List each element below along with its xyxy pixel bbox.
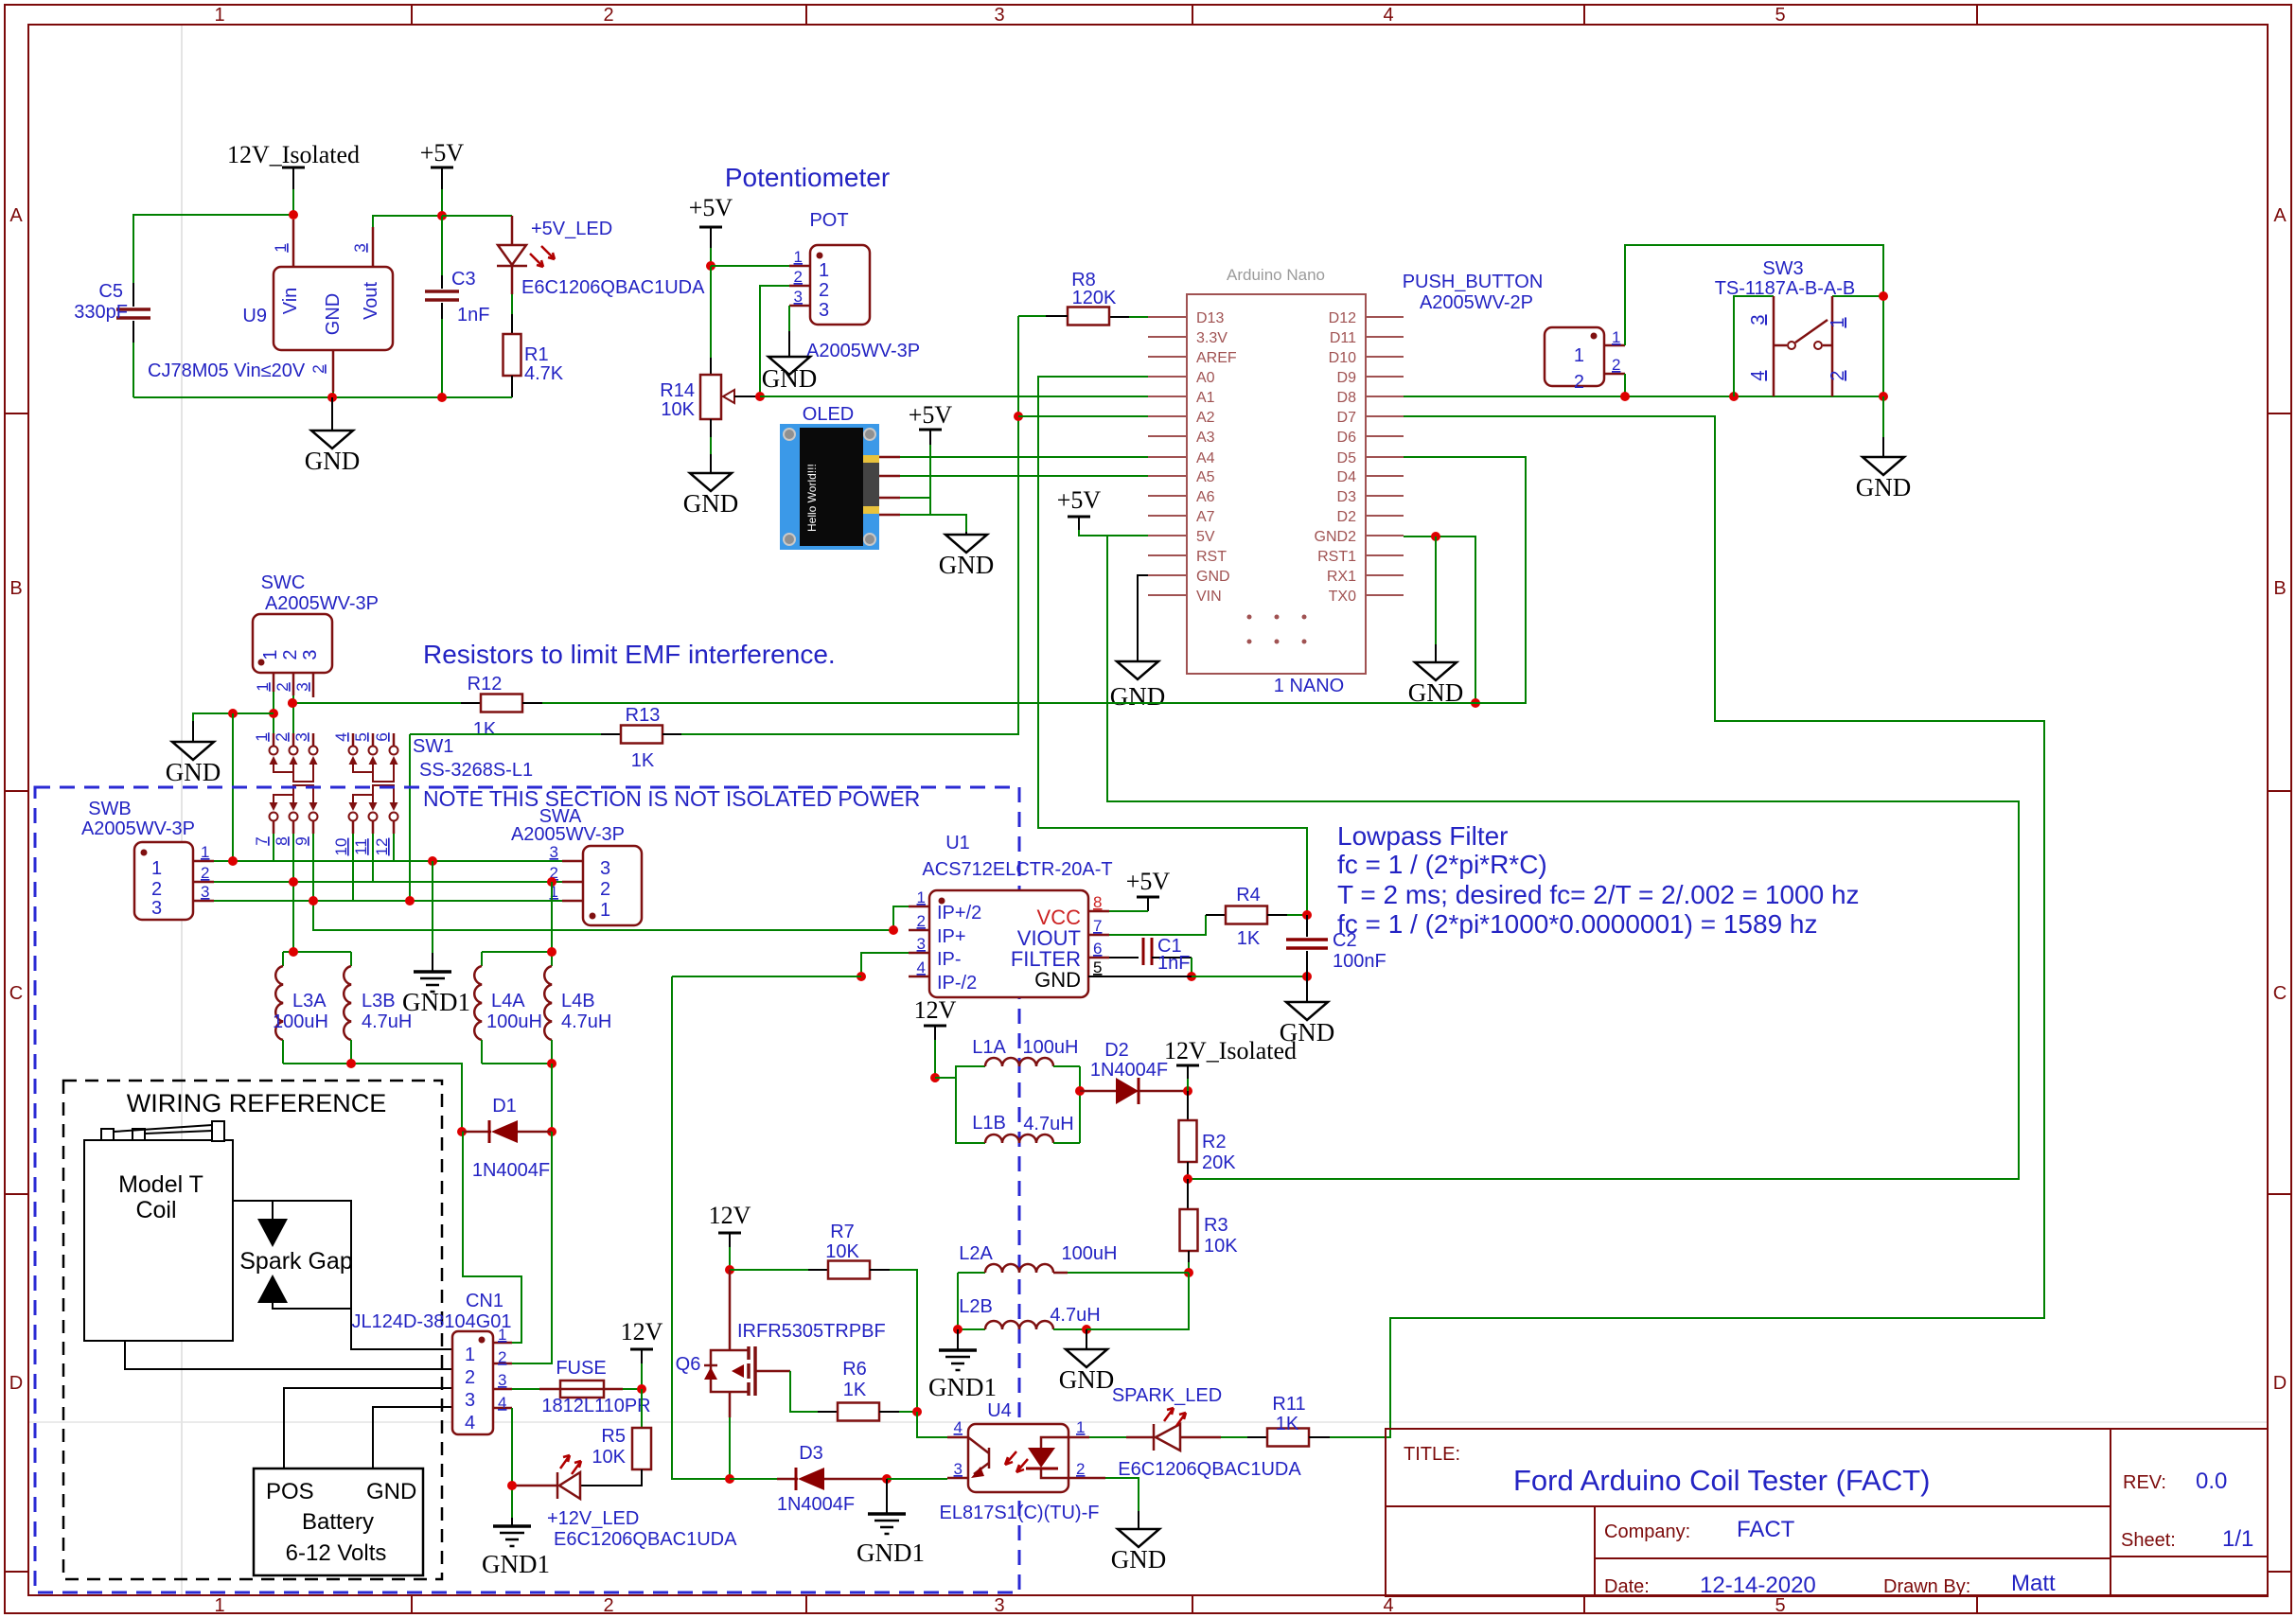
svg-text:E6C1206QBAC1UDA: E6C1206QBAC1UDA xyxy=(554,1529,737,1550)
svg-text:3: 3 xyxy=(300,649,321,660)
svg-text:3: 3 xyxy=(954,1460,963,1478)
svg-text:11: 11 xyxy=(352,838,370,855)
wire Nano GND pin to ground xyxy=(1138,575,1148,661)
svg-text:B: B xyxy=(2273,578,2286,599)
dashed note box xyxy=(35,787,1019,1592)
svg-text:TITLE:: TITLE: xyxy=(1404,1444,1460,1465)
svg-text:D2: D2 xyxy=(1337,509,1357,525)
svg-text:D8: D8 xyxy=(1337,390,1357,406)
svg-text:2: 2 xyxy=(151,879,162,900)
diode D3 1N4004F xyxy=(777,1443,892,1515)
svg-text:L1B: L1B xyxy=(972,1113,1006,1134)
svg-text:Drawn By:: Drawn By: xyxy=(1883,1576,1970,1597)
Nano pin names xyxy=(1196,310,1237,605)
svg-text:D7: D7 xyxy=(1337,410,1357,426)
svg-text:2: 2 xyxy=(1828,370,1848,380)
svg-text:3: 3 xyxy=(917,935,926,953)
svg-text:4: 4 xyxy=(1383,1595,1393,1616)
svg-text:12: 12 xyxy=(373,838,391,856)
lowpass filter notes xyxy=(1337,821,1860,939)
connector PUSH_BUTTON A2005WV-2P xyxy=(1403,272,1625,393)
svg-text:Matt: Matt xyxy=(2011,1571,2056,1596)
svg-text:TX0: TX0 xyxy=(1329,589,1356,605)
svg-text:fc = 1 / (2*pi*1000*0.0000001): fc = 1 / (2*pi*1000*0.0000001) = 1589 hz xyxy=(1337,909,1818,939)
svg-text:2: 2 xyxy=(273,732,291,741)
svg-text:A0: A0 xyxy=(1196,370,1215,386)
svg-text:2: 2 xyxy=(1612,356,1620,374)
diode D2 1N4004F xyxy=(1080,1040,1192,1104)
diode D1 1N4004F xyxy=(457,1096,556,1181)
resistor R8 120K xyxy=(1018,270,1148,325)
svg-text:GND: GND xyxy=(366,1479,416,1504)
transistor Q6 IRFR5305TRPBF xyxy=(676,1270,886,1417)
svg-text:1/1: 1/1 xyxy=(2222,1526,2253,1552)
svg-text:A1: A1 xyxy=(1196,390,1215,406)
svg-text:R6: R6 xyxy=(842,1359,867,1380)
svg-text:Arduino Nano: Arduino Nano xyxy=(1227,266,1325,284)
voltage regulator U9 CJ78M05 xyxy=(148,216,442,397)
title block texts xyxy=(1404,1444,2253,1598)
net 12V flag (fuse) xyxy=(621,1318,663,1394)
svg-text:1K: 1K xyxy=(1276,1414,1299,1434)
ground rail wire xyxy=(133,393,512,402)
svg-text:1K: 1K xyxy=(1237,928,1261,949)
svg-text:1: 1 xyxy=(1612,328,1620,346)
svg-text:CN1: CN1 xyxy=(466,1291,503,1311)
spark gap xyxy=(239,1201,353,1309)
svg-text:2: 2 xyxy=(917,912,926,930)
wire R8/A2/R13 vertical xyxy=(681,316,1148,734)
svg-text:R14: R14 xyxy=(660,380,695,401)
svg-text:Date:: Date: xyxy=(1604,1576,1650,1597)
Model T Coil box xyxy=(84,1121,233,1341)
wire POT pin3 to ground xyxy=(788,306,790,331)
wire SW1 pin7 column xyxy=(273,834,274,861)
module U? Arduino Nano xyxy=(1187,266,1366,674)
svg-text:3: 3 xyxy=(994,1595,1004,1616)
svg-text:SPARK_LED: SPARK_LED xyxy=(1112,1385,1222,1406)
battery labels xyxy=(266,1479,416,1566)
sensor U1 ACS712ELCTR-20A-T xyxy=(909,833,1113,997)
svg-text:GND: GND xyxy=(1856,473,1912,501)
svg-text:3: 3 xyxy=(550,843,558,861)
svg-text:A4: A4 xyxy=(1196,450,1215,466)
svg-text:IRFR5305TRPBF: IRFR5305TRPBF xyxy=(737,1321,886,1342)
wire coil base to CN1 pin2 xyxy=(125,1341,452,1369)
svg-text:2: 2 xyxy=(498,1348,506,1366)
svg-text:2: 2 xyxy=(603,1595,613,1616)
svg-text:A3: A3 xyxy=(1196,430,1215,446)
svg-text:IP-/2: IP-/2 xyxy=(937,973,977,994)
svg-text:RX1: RX1 xyxy=(1327,569,1356,585)
svg-text:3: 3 xyxy=(819,300,829,321)
svg-text:1: 1 xyxy=(600,900,610,921)
net 12V flag (L1) xyxy=(914,996,957,1082)
svg-text:C: C xyxy=(9,983,23,1004)
wire GND branch (SWC) xyxy=(193,709,274,742)
svg-text:20K: 20K xyxy=(1202,1152,1236,1173)
svg-text:7: 7 xyxy=(1093,917,1102,935)
svg-text:Company:: Company: xyxy=(1604,1521,1690,1542)
resistor R5 10K xyxy=(580,1389,651,1486)
svg-text:NOTE THIS SECTION IS NOT ISOLA: NOTE THIS SECTION IS NOT ISOLATED POWER xyxy=(423,786,920,811)
svg-text:R5: R5 xyxy=(601,1426,626,1447)
OLED display module xyxy=(780,404,900,550)
svg-text:5V: 5V xyxy=(1196,529,1215,545)
svg-text:Ford Arduino Coil Tester (FACT: Ford Arduino Coil Tester (FACT) xyxy=(1513,1464,1930,1497)
svg-text:1: 1 xyxy=(465,1345,475,1365)
net +5V flag (regulator output) xyxy=(420,139,465,220)
svg-text:EL817S1(C)(TU)-F: EL817S1(C)(TU)-F xyxy=(940,1503,1100,1523)
svg-text:1: 1 xyxy=(254,682,272,691)
svg-text:12V: 12V xyxy=(621,1318,663,1345)
svg-text:GND1: GND1 xyxy=(482,1550,550,1578)
svg-text:R7: R7 xyxy=(830,1222,855,1242)
svg-text:2: 2 xyxy=(309,364,327,373)
svg-text:1: 1 xyxy=(260,649,281,660)
svg-text:SWC: SWC xyxy=(261,572,306,593)
svg-text:R1: R1 xyxy=(524,344,549,365)
resistor R7 10K xyxy=(730,1222,917,1412)
svg-text:IP+/2: IP+/2 xyxy=(937,903,981,923)
svg-text:REV:: REV: xyxy=(2123,1472,2166,1493)
svg-text:Potentiometer: Potentiometer xyxy=(725,163,890,192)
svg-text:2: 2 xyxy=(201,864,209,882)
wire row SWB3-SWA1 xyxy=(214,896,562,906)
svg-text:GND2: GND2 xyxy=(1315,529,1357,545)
svg-text:3: 3 xyxy=(1748,314,1769,325)
svg-text:3: 3 xyxy=(292,732,310,741)
ground GND (OLED) xyxy=(939,532,995,579)
svg-text:PUSH_BUTTON: PUSH_BUTTON xyxy=(1403,272,1544,292)
svg-text:A2: A2 xyxy=(1196,410,1215,426)
connector SWB A2005WV-3P xyxy=(81,799,214,920)
battery box xyxy=(254,1469,423,1575)
svg-text:U4: U4 xyxy=(987,1400,1012,1421)
wire SW1 pin9 column (to U1 IP+) xyxy=(313,834,893,930)
ground GND1 (D3) xyxy=(857,1514,925,1567)
svg-text:A2005WV-3P: A2005WV-3P xyxy=(81,818,195,839)
svg-text:5: 5 xyxy=(352,732,370,741)
svg-text:A2005WV-3P: A2005WV-3P xyxy=(511,824,625,845)
svg-text:1N4004F: 1N4004F xyxy=(472,1160,550,1181)
svg-text:FACT: FACT xyxy=(1737,1517,1795,1542)
Nano right pin stubs xyxy=(1366,317,1404,595)
svg-text:C: C xyxy=(2273,983,2287,1004)
svg-text:D: D xyxy=(9,1373,23,1394)
svg-text:GND: GND xyxy=(1110,682,1166,711)
svg-text:D: D xyxy=(2273,1373,2287,1394)
svg-text:D11: D11 xyxy=(1330,330,1356,346)
svg-text:D3: D3 xyxy=(799,1443,823,1464)
svg-text:D13: D13 xyxy=(1196,310,1224,326)
svg-text:R2: R2 xyxy=(1202,1132,1227,1152)
svg-text:GND: GND xyxy=(1196,569,1230,585)
svg-text:fc = 1 / (2*pi*R*C): fc = 1 / (2*pi*R*C) xyxy=(1337,850,1547,879)
svg-text:D3: D3 xyxy=(1337,489,1357,505)
svg-text:IP+: IP+ xyxy=(937,926,966,947)
wire row SWB2-SWA2 xyxy=(214,877,562,887)
wire A1 row (wiper to Nano A1) xyxy=(760,396,1148,397)
svg-text:WIRING REFERENCE: WIRING REFERENCE xyxy=(127,1089,387,1117)
svg-text:T = 2 ms; desired fc= 2/T = 2/: T = 2 ms; desired fc= 2/T = 2/.002 = 100… xyxy=(1337,880,1860,909)
svg-text:1N4004F: 1N4004F xyxy=(777,1494,855,1515)
svg-text:+12V_LED: +12V_LED xyxy=(547,1508,639,1529)
svg-text:L4A: L4A xyxy=(491,991,525,1011)
svg-text:JL124D-38104G01: JL124D-38104G01 xyxy=(351,1311,511,1332)
canvas guide lines xyxy=(181,25,183,1595)
svg-text:12-14-2020: 12-14-2020 xyxy=(1700,1573,1816,1598)
svg-text:+5V: +5V xyxy=(689,194,733,221)
svg-text:SW3: SW3 xyxy=(1762,258,1803,279)
wire OLED GND pin xyxy=(900,515,966,532)
svg-text:4: 4 xyxy=(465,1413,475,1433)
svg-text:AREF: AREF xyxy=(1196,350,1237,366)
wire L4 rails xyxy=(482,947,556,1132)
svg-text:SW1: SW1 xyxy=(413,736,453,757)
wire D3 node to ground xyxy=(886,1479,888,1514)
LED SPARK_LED E6C1206QBAC1UDA xyxy=(1089,1385,1301,1480)
svg-text:GND: GND xyxy=(1111,1545,1167,1574)
fuse FUSE 1812L110PR xyxy=(539,1358,651,1416)
svg-text:A7: A7 xyxy=(1196,509,1215,525)
svg-text:Resistors to limit EMF interfe: Resistors to limit EMF interference. xyxy=(423,640,836,669)
wire A0 net (to lowpass output) xyxy=(1038,377,1307,915)
Nano left pin stubs xyxy=(1148,317,1187,595)
inductor L2B 4.7uH xyxy=(953,1273,1189,1334)
svg-text:6-12 Volts: 6-12 Volts xyxy=(286,1540,387,1566)
svg-text:1: 1 xyxy=(214,1595,224,1616)
svg-text:POS: POS xyxy=(266,1479,314,1504)
capacitor C1 1nF xyxy=(1109,936,1196,981)
svg-text:1: 1 xyxy=(917,888,926,906)
svg-text:SS-3268S-L1: SS-3268S-L1 xyxy=(419,760,533,781)
wire U1 IP- pins tie xyxy=(672,953,909,981)
ground GND (SW3) xyxy=(1856,457,1912,501)
svg-text:GND: GND xyxy=(323,293,344,335)
svg-text:Vin: Vin xyxy=(280,288,301,315)
inductor L2A 100uH xyxy=(958,1243,1189,1273)
svg-text:GND: GND xyxy=(305,447,361,475)
wire SW1 pin12 column xyxy=(393,834,395,861)
svg-text:+5V_LED: +5V_LED xyxy=(531,219,612,239)
svg-text:100uH: 100uH xyxy=(486,1011,542,1032)
svg-text:4.7uH: 4.7uH xyxy=(362,1011,412,1032)
wire SW1 pin11 column xyxy=(372,834,374,882)
svg-text:D1: D1 xyxy=(492,1096,517,1117)
svg-text:A2005WV-3P: A2005WV-3P xyxy=(265,593,379,614)
svg-text:A: A xyxy=(9,205,23,226)
svg-text:4.7uH: 4.7uH xyxy=(1023,1114,1073,1134)
resistor R2 20K xyxy=(1179,1091,1237,1184)
wire SW1 pin8 column xyxy=(292,834,294,952)
wire SW3 to ground xyxy=(1882,396,1884,457)
svg-text:GND1: GND1 xyxy=(402,988,470,1016)
wire D3 to U4 pin3 xyxy=(887,1478,947,1480)
wire CN1 pin1 up to D1 junction xyxy=(463,1132,521,1343)
svg-text:GND1: GND1 xyxy=(928,1373,997,1401)
capacitor C2 100nF xyxy=(1286,915,1386,976)
wire L1 right tie xyxy=(1075,1066,1085,1143)
svg-text:4: 4 xyxy=(498,1394,506,1412)
ground GND (U4) xyxy=(1111,1529,1167,1574)
svg-text:2: 2 xyxy=(603,5,613,26)
ground GND (L2B right) xyxy=(1059,1329,1115,1394)
svg-text:12V_Isolated: 12V_Isolated xyxy=(1164,1037,1297,1064)
net +5V flag (U1 VCC) xyxy=(1109,868,1170,911)
svg-text:3: 3 xyxy=(994,5,1004,26)
net 12V_Isolated (U9 input) xyxy=(133,141,360,283)
svg-text:Q6: Q6 xyxy=(676,1354,701,1375)
svg-text:3: 3 xyxy=(794,288,803,306)
svg-text:+5V: +5V xyxy=(909,401,953,429)
ground GND (Nano right GND2) xyxy=(1408,662,1464,707)
svg-text:2: 2 xyxy=(794,268,803,286)
svg-text:2: 2 xyxy=(819,280,829,301)
ground GND (R14 bottom) xyxy=(683,473,739,518)
svg-text:R3: R3 xyxy=(1204,1215,1228,1236)
svg-text:GND: GND xyxy=(166,758,221,786)
svg-text:1: 1 xyxy=(151,858,162,879)
svg-text:+5V: +5V xyxy=(420,139,465,167)
svg-text:B: B xyxy=(9,578,22,599)
svg-text:Model T: Model T xyxy=(118,1171,203,1198)
wire battery POS to CN1 pin3 xyxy=(284,1388,452,1469)
svg-text:0.0: 0.0 xyxy=(2196,1469,2227,1494)
title block frame xyxy=(1386,1429,2268,1596)
svg-text:GND1: GND1 xyxy=(857,1539,925,1567)
svg-text:Lowpass Filter: Lowpass Filter xyxy=(1337,821,1509,851)
svg-text:E6C1206QBAC1UDA: E6C1206QBAC1UDA xyxy=(1118,1459,1301,1480)
ground GND (C2) xyxy=(1280,1002,1335,1046)
LED +5V_LED E6C1206QBAC1UDA xyxy=(442,216,705,298)
wire 5V net down the right (to divider node) xyxy=(1107,536,2019,1179)
svg-text:100uH: 100uH xyxy=(1023,1037,1079,1058)
wire U1 IP+ pins tie xyxy=(889,906,909,935)
wire SWC pin2 column xyxy=(288,695,297,733)
svg-text:FUSE: FUSE xyxy=(556,1358,606,1379)
wire CN1 pin3 to fuse xyxy=(512,1388,539,1390)
svg-text:2: 2 xyxy=(280,649,301,660)
svg-text:3: 3 xyxy=(201,883,209,901)
ground GND1 (L2B left) xyxy=(928,1329,997,1401)
wire row SWB1-SWA3 xyxy=(214,856,562,866)
svg-text:C3: C3 xyxy=(451,269,476,290)
ground GND1 (switch mid) xyxy=(402,972,470,1016)
resistor R3 10K xyxy=(1180,1179,1239,1277)
svg-text:4: 4 xyxy=(332,732,350,741)
svg-text:GND: GND xyxy=(762,364,818,393)
svg-text:D5: D5 xyxy=(1337,450,1357,466)
svg-text:4: 4 xyxy=(954,1418,963,1436)
svg-text:12V: 12V xyxy=(709,1202,751,1229)
svg-text:R13: R13 xyxy=(626,705,661,726)
svg-text:1: 1 xyxy=(794,248,803,266)
svg-text:3: 3 xyxy=(465,1390,475,1411)
inductor L3A 100uH xyxy=(273,952,328,1064)
svg-text:L3A: L3A xyxy=(292,991,327,1011)
svg-text:5: 5 xyxy=(1775,5,1785,26)
junction wiper/A1 xyxy=(755,392,765,401)
svg-text:100uH: 100uH xyxy=(273,1011,328,1032)
inductor L4A 100uH xyxy=(474,952,542,1064)
wire C5 to ground rail xyxy=(132,343,134,397)
wire POT pin2 down to wiper row xyxy=(760,286,789,396)
svg-text:3: 3 xyxy=(293,682,311,691)
resistor R1 4.7K xyxy=(503,294,564,397)
ground GND (SWC) xyxy=(166,742,221,786)
svg-text:12V: 12V xyxy=(914,996,957,1024)
svg-text:D2: D2 xyxy=(1104,1040,1129,1061)
svg-text:VIN: VIN xyxy=(1196,589,1222,605)
wire C2 node to ground xyxy=(1306,976,1308,1002)
svg-text:10K: 10K xyxy=(1204,1236,1238,1257)
svg-text:3: 3 xyxy=(600,858,610,879)
wire L3 rails xyxy=(283,947,462,1132)
wire GND1 column xyxy=(432,861,433,972)
wire coil secondary to CN1 pin1 xyxy=(233,1201,452,1349)
svg-text:A6: A6 xyxy=(1196,489,1215,505)
svg-text:4.7uH: 4.7uH xyxy=(561,1011,611,1032)
wire OLED SDA to A4 xyxy=(900,456,1148,458)
svg-text:POT: POT xyxy=(809,210,848,231)
wire SWC to SWB column xyxy=(232,713,234,861)
svg-text:1: 1 xyxy=(272,243,290,252)
svg-text:L2B: L2B xyxy=(959,1296,993,1317)
svg-text:1: 1 xyxy=(253,732,271,741)
connector SWC A2005WV-3P xyxy=(253,572,379,697)
svg-text:2: 2 xyxy=(1076,1460,1085,1478)
svg-text:A2005WV-2P: A2005WV-2P xyxy=(1420,292,1533,313)
svg-text:A: A xyxy=(2273,205,2287,226)
svg-text:2: 2 xyxy=(465,1367,475,1388)
svg-text:R11: R11 xyxy=(1272,1394,1305,1415)
svg-text:L4B: L4B xyxy=(561,991,595,1011)
svg-text:GND: GND xyxy=(683,489,739,518)
wire D8 row xyxy=(1404,392,1888,401)
svg-text:10K: 10K xyxy=(661,399,695,420)
svg-text:100uH: 100uH xyxy=(1062,1243,1118,1264)
svg-text:D9: D9 xyxy=(1337,370,1357,386)
svg-text:U1: U1 xyxy=(945,833,970,853)
connector CN1 JL124D-38104G01 xyxy=(351,1291,512,1434)
inductor L1A 100uH xyxy=(935,1037,1080,1078)
svg-text:ACS712ELCTR-20A-T: ACS712ELCTR-20A-T xyxy=(922,859,1112,880)
net 12V flag (Q6) xyxy=(709,1202,751,1275)
svg-text:1: 1 xyxy=(1828,317,1848,327)
svg-text:4.7uH: 4.7uH xyxy=(1050,1305,1100,1326)
optocoupler U4 EL817S1(C)(TU)-F xyxy=(940,1400,1100,1523)
wire CN1 pin4 to LED junction xyxy=(507,1408,517,1526)
ground GND (pot pin3) xyxy=(762,331,818,393)
svg-text:2: 2 xyxy=(600,879,610,900)
net +5V flag (OLED) xyxy=(900,401,952,515)
wire GND2 branch xyxy=(1404,532,1480,708)
svg-text:4: 4 xyxy=(1383,5,1393,26)
svg-text:12V_Isolated: 12V_Isolated xyxy=(227,141,360,168)
inductor L3B 4.7uH xyxy=(344,952,412,1064)
svg-text:1K: 1K xyxy=(473,719,497,740)
svg-text:4.7K: 4.7K xyxy=(524,363,564,384)
svg-text:Hello World!!!: Hello World!!! xyxy=(805,464,819,532)
svg-text:D10: D10 xyxy=(1329,350,1356,366)
wire button pin1 up and over to SW3 xyxy=(1625,245,1883,396)
svg-text:GND: GND xyxy=(1059,1365,1115,1394)
switch SW1 SS-3268S-L1 xyxy=(253,732,533,855)
svg-text:R4: R4 xyxy=(1236,885,1261,906)
svg-text:10K: 10K xyxy=(592,1447,626,1468)
svg-text:1812L110PR: 1812L110PR xyxy=(541,1396,650,1416)
